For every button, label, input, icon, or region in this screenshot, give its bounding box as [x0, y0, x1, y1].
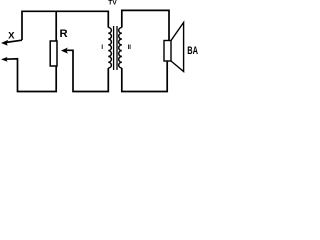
svg-text:BA: BA	[187, 45, 198, 57]
svg-text:II: II	[128, 45, 132, 51]
svg-text:X: X	[8, 31, 15, 42]
svg-text:TV: TV	[108, 0, 117, 7]
svg-text:R: R	[60, 28, 68, 40]
